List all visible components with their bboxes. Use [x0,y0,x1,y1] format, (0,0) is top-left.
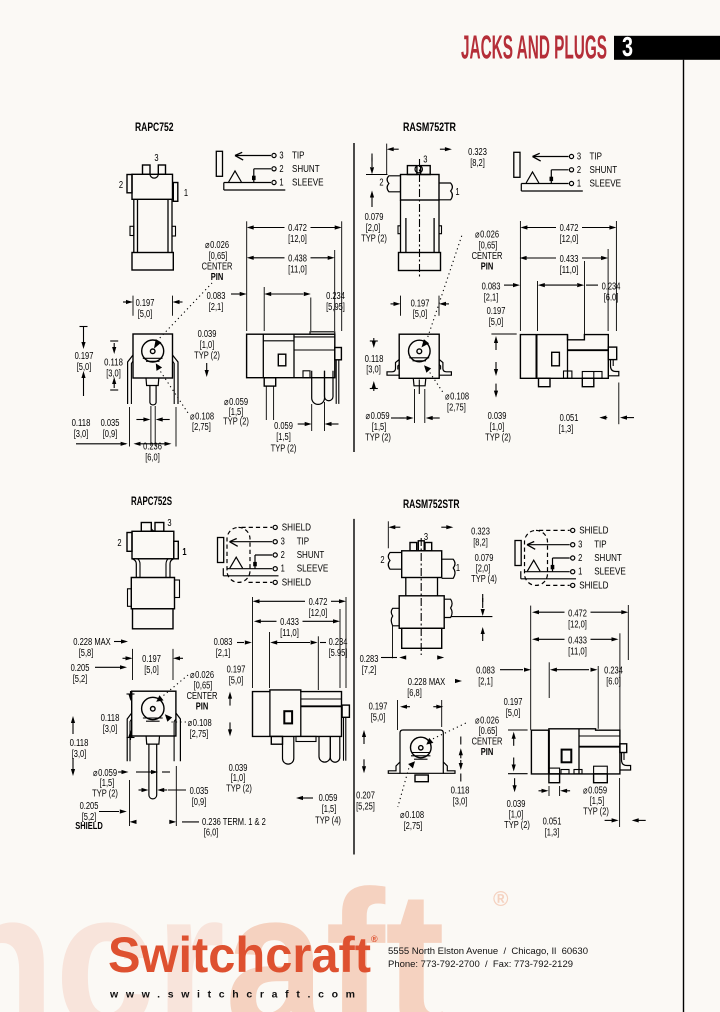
svg-text:[2,0]: [2,0] [476,564,491,575]
svg-text:CENTER: CENTER [187,691,218,702]
svg-text:0.197: 0.197 [487,306,506,317]
svg-text:[1,5]: [1,5] [322,804,337,815]
svg-text:[0,65]: [0,65] [479,240,498,251]
svg-text:TYP (2): TYP (2) [92,789,118,800]
svg-text:TYP (2): TYP (2) [365,433,391,444]
svg-text:3: 3 [279,151,284,162]
svg-text:0.059: 0.059 [319,793,338,804]
svg-text:[5,0]: [5,0] [138,309,153,320]
svg-text:TYP (4): TYP (4) [471,574,497,585]
svg-text:0.118: 0.118 [451,786,470,797]
svg-text:0.197: 0.197 [369,702,388,713]
svg-text:[2,1]: [2,1] [478,676,493,687]
svg-text:JACKS AND PLUGS: JACKS AND PLUGS [461,29,607,66]
svg-text:0.234: 0.234 [326,291,345,302]
svg-text:2: 2 [281,550,286,561]
svg-text:[12,0]: [12,0] [309,608,328,619]
svg-text:0.083: 0.083 [476,666,495,677]
svg-text:0.228 MAX: 0.228 MAX [73,637,111,648]
svg-text:0.283: 0.283 [360,654,379,665]
svg-text:[1,0]: [1,0] [231,773,246,784]
svg-text:CENTER: CENTER [472,737,503,748]
svg-text:SHUNT: SHUNT [292,164,320,175]
svg-text:[11,0]: [11,0] [280,628,299,639]
svg-text:[1,5]: [1,5] [590,796,605,807]
svg-text:CENTER: CENTER [202,262,233,273]
svg-text:0.205: 0.205 [71,663,90,674]
svg-text:[1,0]: [1,0] [490,422,505,433]
svg-text:⌀ 0.026: ⌀ 0.026 [205,240,229,251]
svg-text:⌀ 0.026: ⌀ 0.026 [475,716,499,727]
svg-text:3: 3 [578,540,583,551]
svg-text:[2,75]: [2,75] [404,821,423,832]
svg-text:2: 2 [117,538,122,549]
svg-text:SHIELD: SHIELD [75,821,103,832]
svg-text:[5,0]: [5,0] [413,309,428,320]
svg-text:0.228 MAX: 0.228 MAX [408,677,446,688]
svg-text:[8,2]: [8,2] [470,158,485,169]
svg-text:[5,0]: [5,0] [77,362,92,373]
svg-text:1: 1 [184,188,189,199]
svg-text:[3,0]: [3,0] [453,796,468,807]
svg-text:[12,0]: [12,0] [568,619,587,630]
svg-text:[3,0]: [3,0] [72,749,87,760]
svg-text:0.197: 0.197 [136,298,155,309]
svg-text:1: 1 [455,187,460,198]
svg-text:1: 1 [279,178,284,189]
svg-text:[5,8]: [5,8] [79,648,94,659]
svg-text:0.236: 0.236 [143,442,162,453]
svg-text:TYP (2): TYP (2) [223,417,249,428]
svg-text:3: 3 [167,518,172,529]
svg-text:⌀ 0.108: ⌀ 0.108 [190,412,214,423]
svg-text:3: 3 [622,31,633,62]
svg-text:2: 2 [380,555,385,566]
svg-text:[5,0]: [5,0] [229,675,244,686]
svg-text:[0,9]: [0,9] [103,429,118,440]
svg-text:0.197: 0.197 [75,351,94,362]
svg-text:[11,0]: [11,0] [568,646,587,657]
svg-text:⌀ 0.059: ⌀ 0.059 [583,786,607,797]
svg-text:0.472: 0.472 [568,609,587,620]
svg-text:1: 1 [456,563,461,574]
svg-text:0.197: 0.197 [227,665,246,676]
svg-text:3: 3 [577,152,582,163]
svg-text:www.switchcraft.com: www.switchcraft.com [109,989,355,1001]
svg-text:[1,5]: [1,5] [100,778,115,789]
svg-text:[1,3]: [1,3] [545,827,560,838]
svg-text:[1,5]: [1,5] [276,432,291,443]
svg-text:0.035: 0.035 [101,418,120,429]
svg-text:0.118: 0.118 [70,738,89,749]
svg-text:2: 2 [577,165,582,176]
svg-text:[5,95]: [5,95] [326,302,345,313]
svg-text:[2,75]: [2,75] [447,402,466,413]
svg-text:[2,1]: [2,1] [209,302,224,313]
svg-text:0.234: 0.234 [602,282,621,293]
svg-text:2: 2 [379,178,384,189]
svg-text:1: 1 [281,564,286,575]
svg-text:[2,75]: [2,75] [190,729,209,740]
svg-text:0.039: 0.039 [198,329,217,340]
svg-text:PIN: PIN [196,702,209,713]
svg-text:[6,0]: [6,0] [145,452,160,463]
svg-text:[11,0]: [11,0] [560,265,579,276]
svg-text:TIP: TIP [297,537,310,548]
svg-text:0.035: 0.035 [190,786,209,797]
svg-text:[3,0]: [3,0] [103,724,118,735]
svg-text:TYP (2): TYP (2) [226,784,252,795]
svg-text:PIN: PIN [211,272,224,283]
svg-text:[0,9]: [0,9] [192,797,207,808]
svg-text:[12,0]: [12,0] [560,234,579,245]
svg-text:[12,0]: [12,0] [288,234,307,245]
svg-text:[0.65]: [0.65] [479,726,498,737]
svg-text:SHIELD: SHIELD [579,580,608,591]
svg-text:0.118: 0.118 [365,354,384,365]
svg-text:SHIELD: SHIELD [282,577,311,588]
svg-text:⌀ 0.108: ⌀ 0.108 [188,718,212,729]
svg-text:[5,0]: [5,0] [371,712,386,723]
svg-text:TYP (2): TYP (2) [194,351,220,362]
svg-text:0.433: 0.433 [568,636,587,647]
svg-text:TYP (2): TYP (2) [271,444,297,455]
svg-text:0.059: 0.059 [274,421,293,432]
svg-text:SHIELD: SHIELD [579,525,608,536]
svg-text:[1,5]: [1,5] [372,422,387,433]
svg-text:0.083: 0.083 [207,291,226,302]
svg-text:0.118: 0.118 [104,358,123,369]
svg-text:⌀ 0.026: ⌀ 0.026 [190,670,214,681]
svg-text:RASM752TR: RASM752TR [403,122,457,134]
svg-text:0.051: 0.051 [543,817,562,828]
svg-text:0.051: 0.051 [560,413,579,424]
svg-text:SLEEVE: SLEEVE [594,567,626,578]
svg-text:0.039: 0.039 [507,799,526,810]
svg-text:[2,1]: [2,1] [216,648,231,659]
svg-text:0.197: 0.197 [142,654,161,665]
svg-text:SLEEVE: SLEEVE [590,179,622,190]
svg-text:[6,0]: [6,0] [204,828,219,839]
svg-text:®: ® [493,888,509,911]
svg-text:⌀ 0.108: ⌀ 0.108 [445,392,469,403]
svg-text:SHUNT: SHUNT [590,165,618,176]
svg-text:SLEEVE: SLEEVE [292,178,324,189]
svg-text:0.079: 0.079 [365,212,384,223]
svg-text:PIN: PIN [481,747,494,758]
svg-text:⌀ 0.108: ⌀ 0.108 [400,810,424,821]
svg-text:0.205: 0.205 [80,801,99,812]
svg-text:0.118: 0.118 [72,418,91,429]
svg-text:0.472: 0.472 [309,597,328,608]
svg-text:[6.0]: [6.0] [606,676,621,687]
svg-text:0.438: 0.438 [288,254,307,265]
svg-text:[3,0]: [3,0] [74,429,89,440]
svg-text:[3,0]: [3,0] [106,368,121,379]
svg-text:0.472: 0.472 [288,223,307,234]
svg-text:2: 2 [578,553,583,564]
svg-text:PIN: PIN [481,262,494,273]
svg-text:[2,75]: [2,75] [192,422,211,433]
svg-text:[0,65]: [0,65] [209,251,228,262]
svg-text:[7,2]: [7,2] [362,665,377,676]
svg-text:0.323: 0.323 [468,147,487,158]
svg-text:[3,0]: [3,0] [366,365,381,376]
svg-text:[8,2]: [8,2] [473,537,488,548]
svg-text:Phone: 773-792-2700 / Fax: 7: Phone: 773-792-2700 / Fax: 773-792-2129 [388,958,573,969]
svg-text:0.234: 0.234 [329,637,348,648]
svg-text:3: 3 [423,155,428,166]
svg-text:TYP (2): TYP (2) [485,433,511,444]
svg-text:SHIELD: SHIELD [282,522,311,533]
svg-text:TYP (2): TYP (2) [504,820,530,831]
svg-text:1: 1 [182,547,187,558]
svg-text:[5,0]: [5,0] [489,317,504,328]
svg-text:3: 3 [424,532,429,543]
svg-text:[5,0]: [5,0] [144,665,159,676]
svg-text:⌀ 0.026: ⌀ 0.026 [475,230,499,241]
svg-text:0.472: 0.472 [560,223,579,234]
svg-text:SHUNT: SHUNT [594,553,622,564]
svg-text:[5,25]: [5,25] [356,801,375,812]
svg-text:1: 1 [577,179,582,190]
svg-text:[0,65]: [0,65] [194,681,213,692]
svg-text:RAPC752S: RAPC752S [131,496,172,508]
svg-text:[2,0]: [2,0] [366,223,381,234]
svg-text:[1,0]: [1,0] [509,810,524,821]
svg-text:[11,0]: [11,0] [288,264,307,275]
svg-text:0.197: 0.197 [504,697,523,708]
svg-text:0.433: 0.433 [560,254,579,265]
svg-text:TIP: TIP [292,151,305,162]
svg-text:SHUNT: SHUNT [297,550,325,561]
svg-text:0.323: 0.323 [471,527,490,538]
svg-text:0.207: 0.207 [356,791,375,802]
svg-text:⌀ 0.059: ⌀ 0.059 [365,411,389,422]
svg-text:TIP: TIP [590,152,603,163]
svg-text:0.433: 0.433 [280,617,299,628]
svg-text:0.197: 0.197 [411,298,430,309]
svg-text:0.118: 0.118 [101,713,120,724]
svg-text:CENTER: CENTER [472,251,503,262]
svg-text:3: 3 [281,537,286,548]
svg-text:5555 North Elston Avenue / C: 5555 North Elston Avenue / Chicago, Il 6… [388,945,588,956]
svg-text:TYP (2): TYP (2) [361,234,387,245]
svg-text:0.039: 0.039 [488,411,507,422]
svg-text:0.083: 0.083 [482,282,501,293]
svg-text:[1,3]: [1,3] [559,424,574,435]
svg-text:0.079: 0.079 [475,553,494,564]
svg-text:TYP (4): TYP (4) [315,816,341,827]
svg-text:RAPC752: RAPC752 [135,122,174,134]
svg-text:0.083: 0.083 [214,637,233,648]
svg-text:3: 3 [154,153,159,164]
svg-text:TIP: TIP [594,540,607,551]
svg-text:1: 1 [578,567,583,578]
svg-text:®: ® [371,934,378,944]
svg-text:[1,0]: [1,0] [200,340,215,351]
svg-text:[5,0]: [5,0] [506,708,521,719]
svg-text:SLEEVE: SLEEVE [297,564,329,575]
svg-text:[5.95]: [5.95] [329,648,348,659]
svg-text:[2,1]: [2,1] [484,292,499,303]
svg-text:[6.0]: [6.0] [604,292,619,303]
svg-text:Switchcraft: Switchcraft [108,927,371,983]
svg-text:RASM752STR: RASM752STR [403,499,460,511]
svg-text:2: 2 [279,164,284,175]
svg-text:0.236 TERM. 1 & 2: 0.236 TERM. 1 & 2 [202,817,266,828]
svg-text:TYP (2): TYP (2) [583,807,609,818]
svg-text:0.234: 0.234 [604,666,623,677]
svg-text:[6,8]: [6,8] [407,688,422,699]
svg-text:2: 2 [119,180,124,191]
svg-text:[5,2]: [5,2] [73,674,88,685]
